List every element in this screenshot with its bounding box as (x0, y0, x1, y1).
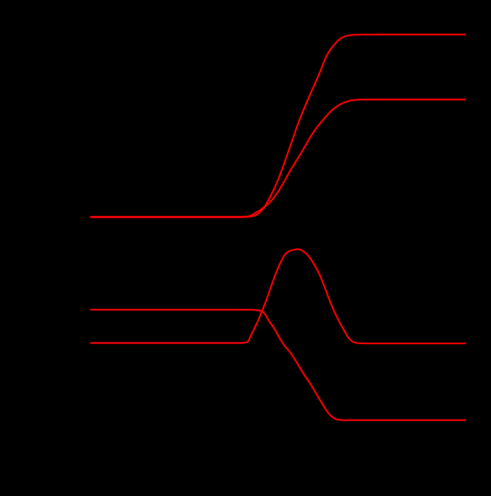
curve T2 (lower rising waveform, plateau y=99.5) (91, 100, 465, 218)
curve T1 (upper rising waveform, plateau y=34.5) (91, 35, 465, 218)
curve B1 (current bump waveform, peak at x=297) (91, 249, 465, 343)
curve B2 (falling waveform, plateau y=420) (91, 310, 465, 421)
soft glow under-strokes (91, 35, 465, 421)
